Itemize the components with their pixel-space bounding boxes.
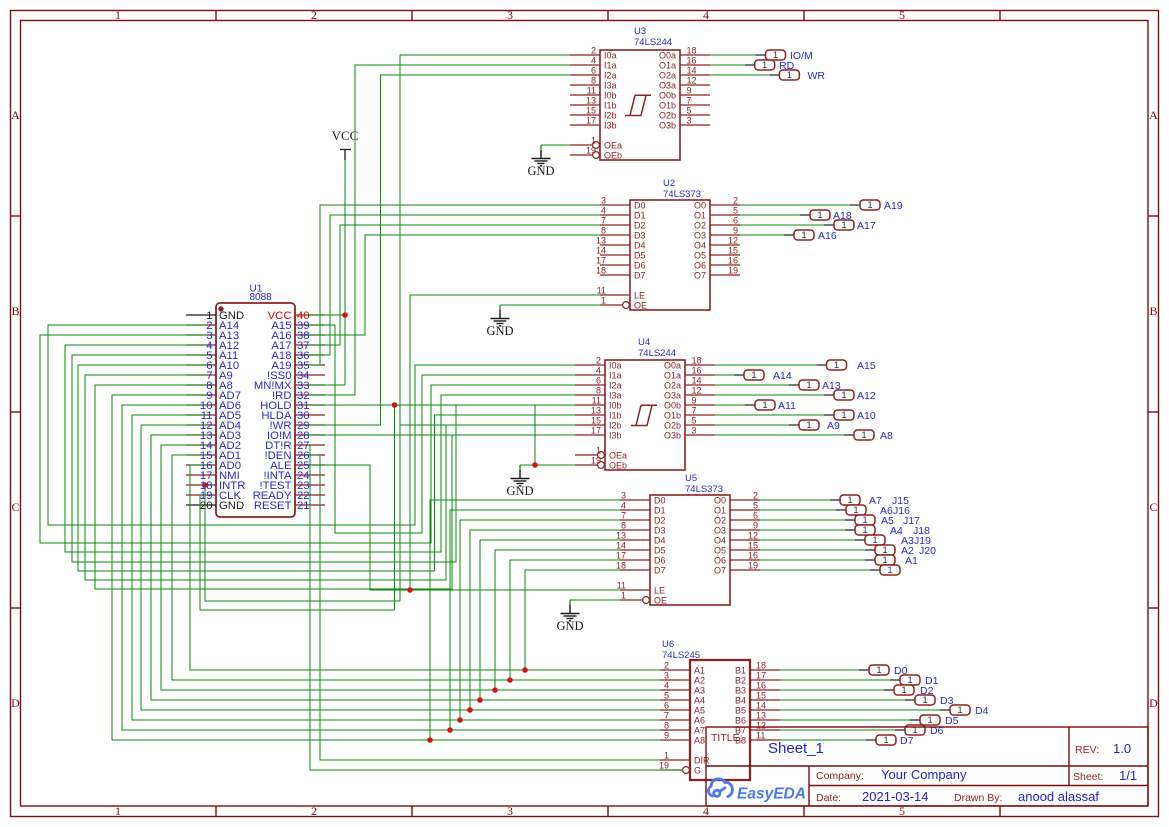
svg-text:B4: B4 [735,696,746,706]
net port flag A10 [824,410,876,422]
svg-text:D: D [1149,696,1158,710]
svg-text:OE: OE [634,301,647,311]
svg-text:D7: D7 [900,735,914,747]
svg-text:O1a: O1a [664,371,681,381]
svg-text:9: 9 [692,396,697,406]
svg-text:1: 1 [872,535,877,546]
svg-text:5: 5 [692,416,697,426]
svg-text:19: 19 [728,266,738,276]
svg-text:A7: A7 [694,726,705,736]
wire U4 O0b [715,404,745,406]
svg-text:1: 1 [787,70,792,81]
svg-text:8: 8 [621,521,626,531]
IC U4 74LS244 body and pins [575,360,715,470]
svg-text:A1: A1 [694,666,705,676]
svg-text:19: 19 [591,456,601,466]
net port flag IO/M [756,50,813,62]
junction at 520,670 [522,667,528,673]
IC U1 labels and pin text [200,284,310,513]
svg-text:O1b: O1b [659,101,676,111]
svg-text:J20: J20 [919,545,936,557]
svg-text:17: 17 [616,551,626,561]
svg-text:I0a: I0a [604,51,617,61]
net port flag D6 [895,725,944,737]
svg-text:7: 7 [621,511,626,521]
svg-text:12: 12 [692,386,702,396]
IC U5 labels and pin text [616,473,758,606]
svg-text:1: 1 [867,200,872,211]
svg-text:16: 16 [756,681,766,691]
EasyEDA logo [708,779,732,797]
svg-text:O0a: O0a [659,51,676,61]
svg-text:O7: O7 [694,271,706,281]
wire U2 O3 [740,234,784,236]
wire U5 OE to GND [570,599,620,601]
svg-text:11: 11 [597,286,606,296]
svg-text:2: 2 [664,661,669,671]
svg-text:D3: D3 [634,231,646,241]
net port flag D5 [910,715,959,727]
junction at 460,720 [457,717,463,723]
junction at 505,680 [507,677,513,683]
svg-text:1: 1 [901,685,906,696]
svg-text:1: 1 [922,695,927,706]
net port flag A4 [845,525,930,537]
svg-text:O2b: O2b [659,111,676,121]
svg-text:2: 2 [311,804,317,818]
svg-text:3: 3 [664,671,669,681]
svg-text:U3: U3 [634,26,646,37]
svg-text:O6: O6 [694,261,706,271]
svg-text:I1a: I1a [609,371,622,381]
net port flag A16 [784,230,837,242]
svg-text:9: 9 [664,731,669,741]
svg-text:1: 1 [817,210,822,221]
svg-text:3: 3 [601,196,606,206]
svg-text:D5: D5 [945,715,959,727]
net port flag WR [769,70,825,82]
wire U5 D5 [495,550,620,690]
svg-text:D5: D5 [634,251,646,261]
svg-text:1: 1 [841,220,846,231]
svg-text:5: 5 [733,206,738,216]
svg-text:1: 1 [801,230,806,241]
svg-text:I1b: I1b [604,101,617,111]
svg-text:1: 1 [883,735,888,746]
svg-text:D2: D2 [654,516,666,526]
svg-text:1: 1 [841,390,846,401]
svg-text:O1a: O1a [659,61,676,71]
wire U5 D2 [460,520,620,720]
svg-text:1: 1 [773,50,778,61]
svg-text:O0b: O0b [659,91,676,101]
svg-text:D4: D4 [654,536,666,546]
svg-text:Sheet_1: Sheet_1 [768,740,824,757]
svg-text:74LS244: 74LS244 [638,348,676,359]
svg-text:C: C [11,500,19,514]
svg-text:O1b: O1b [664,411,681,421]
svg-text:17: 17 [756,671,766,681]
wire U4 O1a [715,374,734,376]
svg-text:O5: O5 [694,251,706,261]
svg-text:11: 11 [587,86,596,96]
svg-text:LE: LE [634,291,645,301]
svg-text:I0b: I0b [609,401,622,411]
svg-text:16: 16 [692,366,702,376]
title block [706,727,1148,806]
wire U5 O4 [760,539,855,541]
svg-text:O4: O4 [714,536,726,546]
net port flag A2 [865,545,936,557]
svg-text:1: 1 [861,430,866,441]
svg-text:I2a: I2a [604,71,617,81]
wire U3 O1a [710,64,745,66]
net port flag D0 [859,665,908,677]
svg-text:1: 1 [115,8,121,22]
IC U3 74LS244 body and pins [570,50,710,160]
svg-text:I3a: I3a [604,81,617,91]
svg-text:1: 1 [806,380,811,391]
wire U6 B6 [780,719,910,721]
svg-text:8: 8 [664,721,669,731]
wire A18 [306,215,600,355]
svg-text:A5: A5 [694,706,705,716]
svg-text:1: 1 [887,565,892,576]
svg-text:I0b: I0b [604,91,617,101]
U1 pin-1 marker dot [218,306,223,311]
wire U4 O0a [715,364,817,366]
svg-text:17: 17 [596,256,606,266]
svg-text:O3a: O3a [659,81,676,91]
wire U5 D6 [510,560,620,680]
svg-text:O6: O6 [714,556,726,566]
wire U5 O7 [760,569,870,571]
svg-text:1: 1 [591,136,596,146]
wire U4 I0b [456,404,575,406]
junction at 450,730 [447,727,453,733]
svg-text:74LS245: 74LS245 [662,650,700,661]
wire A19 [306,205,600,365]
svg-text:U6: U6 [662,639,674,650]
svg-text:O2a: O2a [659,71,676,81]
svg-text:O2: O2 [694,221,706,231]
wire VCC rail [306,158,345,385]
svg-text:5: 5 [899,8,905,22]
svg-text:14: 14 [756,701,766,711]
svg-text:D6: D6 [634,261,646,271]
svg-text:C: C [1149,500,1157,514]
svg-text:8: 8 [601,226,606,236]
svg-text:13: 13 [596,236,606,246]
svg-text:12: 12 [687,76,697,86]
svg-text:TITLE:: TITLE: [711,732,743,744]
wire AD0 [190,465,660,670]
svg-text:EasyEDA: EasyEDA [737,786,806,803]
svg-text:I3a: I3a [609,391,622,401]
svg-text:LE: LE [654,586,665,596]
wire DT/R to G [306,445,682,770]
svg-text:8: 8 [591,76,596,86]
wire ALE branch U2 LE [410,295,600,590]
junction at 535,465 [532,462,538,468]
svg-text:VCC: VCC [332,128,359,143]
svg-text:1: 1 [762,400,767,411]
wire U6 B4 [780,699,905,701]
wire U3 O0a [710,54,756,56]
svg-text:6: 6 [733,216,738,226]
svg-text:A6: A6 [694,716,705,726]
svg-text:I2b: I2b [604,111,617,121]
svg-text:GND: GND [556,619,583,633]
wire U5 D1 [450,510,620,730]
svg-text:1: 1 [762,60,767,71]
wire U6 B2 [780,679,890,681]
net port flag D4 [940,705,989,717]
wire IO/M long [306,434,575,436]
wire A8 [95,385,452,589]
junction at 410,590 [407,587,413,593]
svg-text:2: 2 [311,8,317,22]
svg-text:OE: OE [654,596,667,606]
svg-text:9: 9 [687,86,692,96]
svg-text:B6: B6 [735,716,746,726]
ground symbol near U3 [540,145,542,150]
svg-text:A11: A11 [778,400,796,412]
wire U2 OE [500,304,600,306]
IC U6 labels and pin text [659,639,766,776]
junction at 492,690 [492,687,498,693]
junction at 470,710 [467,707,473,713]
junction at 394.5,405 [392,402,398,408]
junction at 480,700 [477,697,483,703]
wire U4 O1b [715,414,824,416]
svg-text:14: 14 [596,246,606,256]
svg-text:4: 4 [601,206,606,216]
wire U5 D4 [480,540,620,700]
svg-text:5: 5 [753,501,758,511]
svg-text:7: 7 [664,711,669,721]
svg-text:GND: GND [527,164,554,178]
junction at 345,315 [342,312,348,318]
svg-text:12: 12 [748,531,758,541]
IC U1 8088 CPU body and pins [186,303,325,517]
svg-text:WR: WR [808,70,826,82]
svg-text:5: 5 [664,691,669,701]
svg-text:1: 1 [806,420,811,431]
svg-text:1: 1 [664,751,669,761]
svg-text:Date:: Date: [816,792,841,804]
net port flag A9 [789,420,840,432]
svg-text:6: 6 [591,66,596,76]
net port flag A13 [789,380,841,392]
wire U6 B5 [780,709,940,711]
svg-text:B5: B5 [735,706,746,716]
wire U6 B7 [780,729,895,731]
net port flag (unnamed) [870,565,900,576]
net port flag A7 [830,495,909,507]
svg-text:O3b: O3b [659,121,676,131]
svg-text:O3: O3 [714,526,726,536]
svg-text:I2a: I2a [609,381,622,391]
wire HOLD long [306,404,456,406]
net port flag A12 [824,390,876,402]
svg-text:A8: A8 [694,736,705,746]
wire U4 OEb [520,464,575,466]
wire AD5 [132,415,660,720]
ground symbol near U2 [499,305,501,310]
svg-text:A16: A16 [818,230,837,242]
svg-text:B3: B3 [735,686,746,696]
svg-text:13: 13 [616,531,626,541]
svg-text:U2: U2 [663,178,675,189]
svg-text:14: 14 [687,66,697,76]
wire IO/M vertical [399,55,401,601]
svg-text:6: 6 [753,511,758,521]
svg-text:OEb: OEb [604,151,622,161]
svg-text:I3b: I3b [604,121,617,131]
svg-text:7: 7 [687,96,692,106]
svg-text:Sheet:: Sheet: [1073,771,1103,783]
svg-text:I0a: I0a [609,361,622,371]
svg-text:D4: D4 [634,241,646,251]
svg-text:13: 13 [586,96,596,106]
svg-text:18: 18 [596,266,606,276]
svg-text:20: 20 [200,500,213,512]
wire AD1 [172,455,660,680]
svg-text:I2b: I2b [609,421,622,431]
wire U4 O2b [715,424,789,426]
svg-text:A2: A2 [694,676,705,686]
svg-text:A8: A8 [880,430,893,442]
svg-text:3: 3 [621,491,626,501]
IC U4 labels and pin text [591,337,702,471]
net port flag A11 [745,400,796,412]
svg-text:B: B [11,304,19,318]
net port flag D3 [905,695,954,707]
svg-text:GND: GND [486,324,513,338]
wire U4 I2b [400,424,575,426]
svg-text:19: 19 [659,761,669,771]
svg-text:A1: A1 [905,555,918,567]
svg-text:1: 1 [601,296,606,306]
wire U4 O3a [715,394,824,396]
net port flag D1 [890,675,939,687]
wire U5 D3 [470,530,620,710]
wire ALE [306,465,620,590]
svg-text:GND: GND [219,500,244,512]
svg-text:B: B [1149,304,1157,318]
svg-text:3: 3 [507,8,513,22]
svg-text:1: 1 [596,446,601,456]
wire INTR loop [205,485,400,601]
svg-text:9: 9 [753,521,758,531]
svg-text:8088: 8088 [250,292,273,303]
svg-text:12: 12 [756,721,766,731]
svg-text:OEa: OEa [609,451,627,461]
wire U2 O1 [740,214,800,216]
svg-text:6: 6 [664,701,669,711]
svg-text:15: 15 [591,416,601,426]
junction at 205,485 [202,482,208,488]
wire CLK loop [200,495,395,610]
svg-text:O5: O5 [714,546,726,556]
wire U5 O1 [760,509,836,511]
svg-text:1.0: 1.0 [1113,741,1131,756]
svg-text:D0: D0 [654,496,666,506]
svg-text:2: 2 [753,491,758,501]
svg-text:D4: D4 [975,705,989,717]
svg-text:I3b: I3b [609,431,622,441]
svg-text:B2: B2 [735,676,746,686]
svg-text:3: 3 [692,426,697,436]
svg-text:D7: D7 [654,566,666,576]
svg-text:D0: D0 [634,201,646,211]
wire A13 [40,335,575,543]
wire U2 O0 [740,204,850,206]
svg-text:DIR: DIR [694,756,710,766]
IC U3 labels and pin text [586,26,697,161]
svg-text:RESET: RESET [254,500,292,512]
svg-text:1: 1 [621,591,626,601]
svg-text:O1: O1 [714,506,726,516]
svg-text:A12: A12 [857,390,876,402]
svg-text:A4: A4 [694,696,705,706]
svg-text:1: 1 [862,525,867,536]
svg-text:15: 15 [586,106,596,116]
wire A15 [306,325,575,533]
svg-text:G: G [694,766,701,776]
svg-text:13: 13 [591,406,601,416]
svg-text:11: 11 [617,581,626,591]
svg-text:O4: O4 [694,241,706,251]
svg-text:1: 1 [834,360,839,371]
svg-text:D1: D1 [654,506,666,516]
wire U5 O2 [760,519,845,521]
svg-text:A17: A17 [857,220,876,232]
wire A17 [306,225,600,345]
wire U5 O5 [760,549,865,551]
svg-text:A14: A14 [773,370,792,382]
IC U5 74LS373 body and pins [620,495,760,605]
wire U6 B8 [780,739,866,741]
svg-text:O0a: O0a [664,361,681,371]
svg-text:5: 5 [687,106,692,116]
svg-text:16: 16 [728,256,738,266]
wire U4 O2a [715,384,789,386]
svg-text:3: 3 [507,804,513,818]
svg-text:I1a: I1a [604,61,617,71]
svg-text:4: 4 [596,366,601,376]
svg-text:O1: O1 [694,211,706,221]
svg-text:O2: O2 [714,516,726,526]
svg-text:6: 6 [596,376,601,386]
svg-text:74LS373: 74LS373 [663,189,701,200]
svg-text:21: 21 [297,500,310,512]
svg-text:7: 7 [601,216,606,226]
svg-text:12: 12 [728,236,738,246]
junction at 430,740 [427,737,433,743]
svg-text:17: 17 [591,426,601,436]
wire A9 [85,375,446,580]
svg-text:74LS373: 74LS373 [685,484,723,495]
svg-text:15: 15 [728,246,738,256]
svg-text:O3b: O3b [664,431,681,441]
net port flag A15 [817,360,876,372]
svg-text:2: 2 [596,356,601,366]
svg-text:13: 13 [756,711,766,721]
svg-text:O7: O7 [714,566,726,576]
net port flag A17 [824,220,876,232]
